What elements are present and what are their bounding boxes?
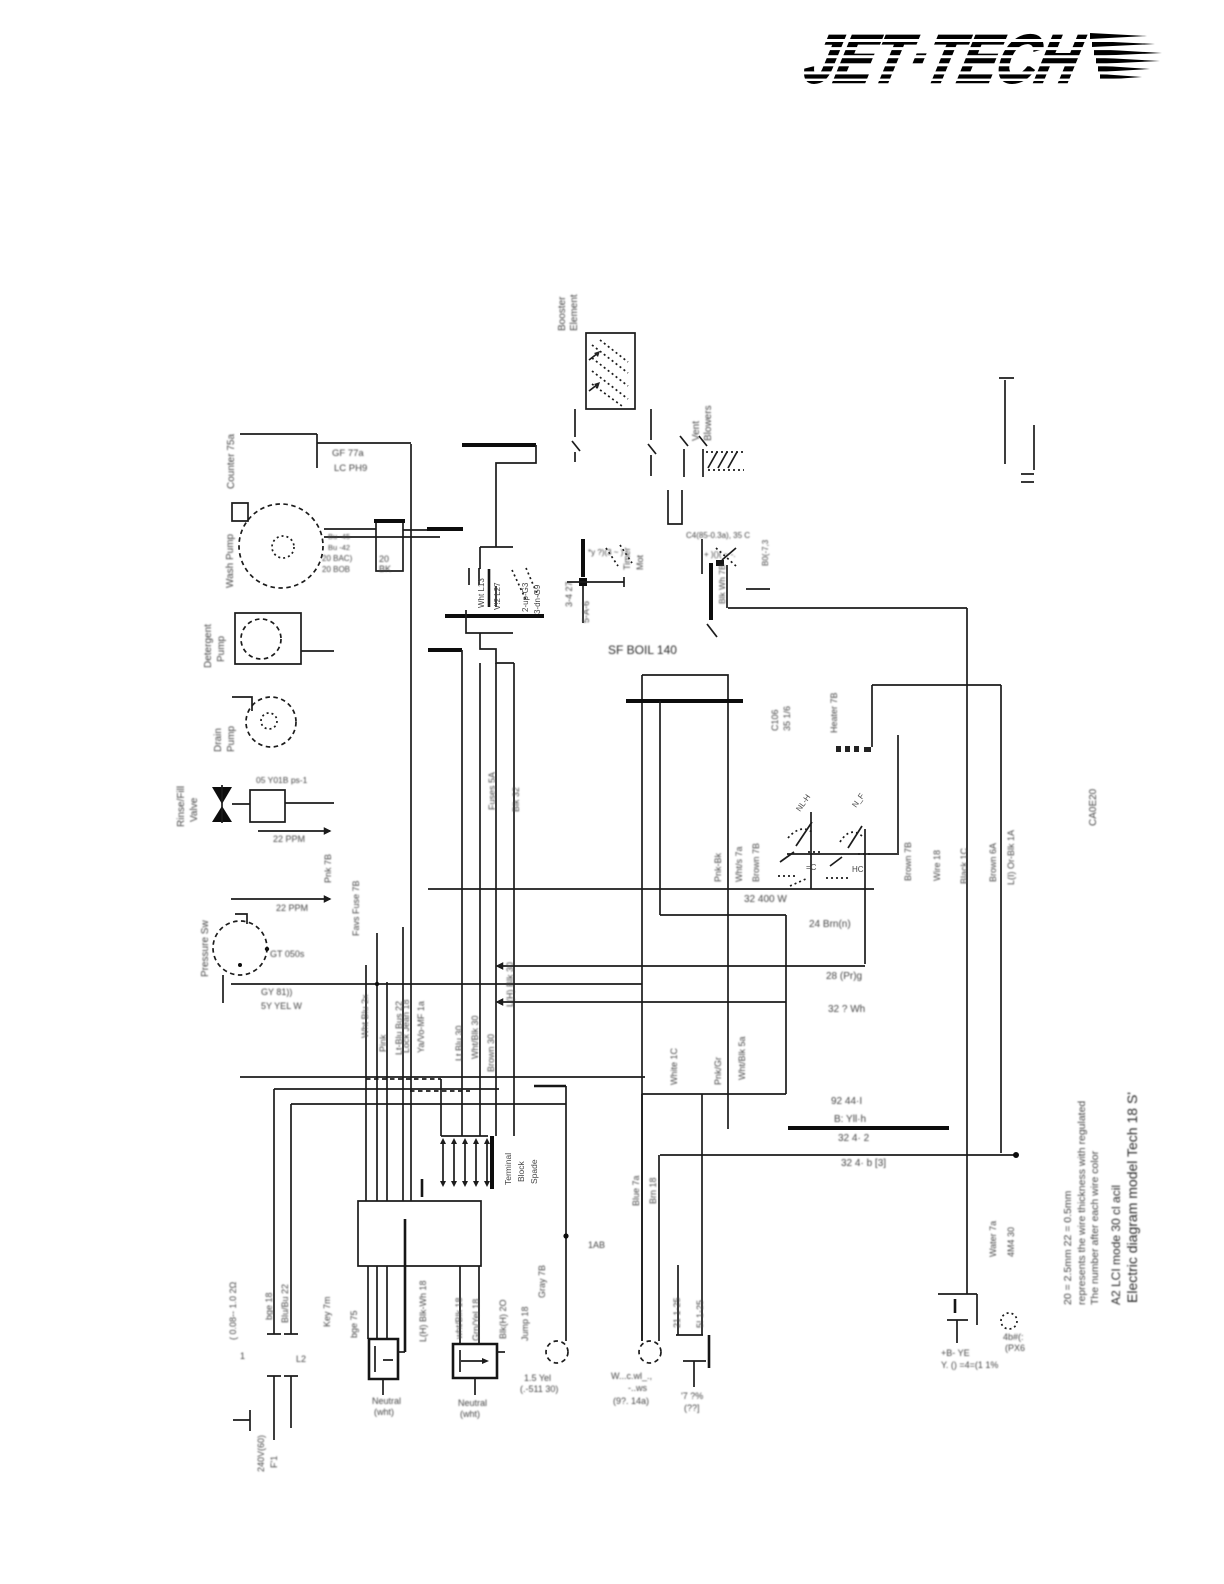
relay box 2 <box>453 1344 505 1395</box>
svg-text:Brown 6A: Brown 6A <box>988 843 998 882</box>
wire arrow 22PPM lower <box>231 898 330 900</box>
svg-text:bge 75: bge 75 <box>349 1310 359 1338</box>
svg-text:3-dn-G9: 3-dn-G9 <box>533 584 542 614</box>
svg-text:Valve: Valve <box>189 797 200 822</box>
svg-text:Spade: Spade <box>529 1159 539 1184</box>
svg-text:Favs Fuse 7B: Favs Fuse 7B <box>351 880 361 936</box>
svg-text:+B- YE: +B- YE <box>941 1348 970 1358</box>
svg-text:Pnk-Bk: Pnk-Bk <box>713 852 723 882</box>
contact block staircase <box>462 445 536 569</box>
wire mid-bottom rails <box>642 1093 786 1095</box>
fuse bracket <box>668 490 682 524</box>
wires into relay 1 <box>368 1266 387 1339</box>
svg-text:Counter 75a: Counter 75a <box>226 434 237 489</box>
svg-text:20 = 2.5mm 22 = 0.5mm: 20 = 2.5mm 22 = 0.5mm <box>1062 1190 1074 1305</box>
svg-text:3-4 27: 3-4 27 <box>564 581 574 607</box>
svg-text:Wash Pump: Wash Pump <box>225 533 236 588</box>
svg-text:bge 18: bge 18 <box>264 1292 274 1320</box>
svg-text:Booster: Booster <box>557 296 568 331</box>
relay box 1 <box>369 1339 405 1395</box>
wire hook below contacts <box>466 610 514 663</box>
svg-text:Mot: Mot <box>635 554 645 570</box>
svg-text:Pump: Pump <box>226 725 237 752</box>
svg-text:Block: Block <box>516 1160 526 1182</box>
supply terminals <box>233 1334 298 1440</box>
svg-text:Vent: Vent <box>691 421 702 441</box>
svg-text:Pink: Pink <box>378 1034 388 1052</box>
svg-text:Brown 7B: Brown 7B <box>751 843 761 882</box>
wire long center vertical <box>410 444 412 1201</box>
svg-text:Ya/Vo-MF 1a: Ya/Vo-MF 1a <box>416 1001 426 1053</box>
svg-text:240V(60): 240V(60) <box>256 1435 266 1472</box>
wash motor lower <box>546 1341 568 1363</box>
svg-text:20: 20 <box>379 554 389 564</box>
svg-text:N_F: N_F <box>850 792 866 810</box>
thick bus lower contact <box>445 614 544 618</box>
valve box <box>250 790 285 822</box>
svg-text:-..ws: -..ws <box>628 1383 647 1393</box>
wire top right stubs <box>999 378 1034 482</box>
wire cap branch <box>676 1094 709 1387</box>
svg-text:BK: BK <box>379 564 391 574</box>
svg-text:Rinse/Fill: Rinse/Fill <box>176 786 187 827</box>
wire pump to capacitor <box>324 529 440 537</box>
wire long mid rail <box>428 888 874 890</box>
wire right top rail <box>727 565 967 608</box>
svg-text:22 PPM: 22 PPM <box>273 834 305 844</box>
rinse motor lower <box>639 1094 661 1363</box>
svg-text:20 BOB: 20 BOB <box>322 565 350 574</box>
wire drop to motor <box>565 1086 567 1341</box>
wire vertical feeders <box>461 650 463 1136</box>
svg-text:CA0E20: CA0E20 <box>1088 788 1099 826</box>
timer motor bar <box>567 539 632 623</box>
wire L1 rail <box>274 1089 499 1334</box>
svg-text:GT 050s: GT 050s <box>270 949 305 959</box>
wire capacitor to contact block <box>403 529 427 531</box>
svg-text:Grn/Yel 18: Grn/Yel 18 <box>471 1299 481 1341</box>
relay contact stack <box>469 568 542 614</box>
svg-text:represents the wire thickness: represents the wire thickness with regul… <box>1076 1101 1088 1305</box>
svg-text:1AB: 1AB <box>588 1240 605 1250</box>
wire valve out <box>285 802 334 804</box>
svg-text:5! 1-25: 5! 1-25 <box>695 1300 705 1328</box>
svg-text:Neutral: Neutral <box>458 1398 487 1408</box>
svg-text:92 44·I: 92 44·I <box>831 1096 862 1107</box>
thick bar to relay <box>404 1219 407 1352</box>
svg-text:L(H) Blk-Wh 18: L(H) Blk-Wh 18 <box>418 1280 428 1342</box>
wire left thick stub <box>428 648 462 652</box>
svg-text:Heater 7B: Heater 7B <box>829 692 839 733</box>
svg-text:35 1/6: 35 1/6 <box>782 706 792 731</box>
wire upper right link <box>872 685 1001 747</box>
svg-text:F'1: F'1 <box>269 1456 279 1468</box>
svg-text:5Y YEL W: 5Y YEL W <box>261 1001 302 1011</box>
svg-text:Electric diagram model Tech: Electric diagram model Tech 18 S' <box>1124 1092 1140 1303</box>
rinse valve <box>212 785 250 823</box>
contactor coil box <box>358 1201 481 1266</box>
svg-text:SF BOIL 140: SF BOIL 140 <box>608 643 677 657</box>
svg-text:Blk 32: Blk 32 <box>511 787 521 812</box>
svg-text:Y. () =4=(1 1%: Y. () =4=(1 1% <box>941 1360 998 1370</box>
wire top-left feed <box>240 434 411 468</box>
svg-text:NL-H: NL-H <box>794 793 812 814</box>
svg-text:Blk Wh 7B: Blk Wh 7B <box>717 564 727 604</box>
logo JET-TECH <box>780 22 1210 97</box>
svg-text:Wht Blu 2x: Wht Blu 2x <box>360 994 370 1038</box>
svg-text:JET·TECH: JET·TECH <box>798 22 1090 97</box>
svg-text:Pressure Sw: Pressure Sw <box>200 920 211 977</box>
svg-text:=C: =C <box>806 863 817 872</box>
svg-text:Timer: Timer <box>622 547 632 570</box>
wire mid cluster verticals <box>366 927 403 1201</box>
detergent pump <box>235 613 334 664</box>
svg-text:1: 1 <box>240 1351 245 1361</box>
svg-text:Drain: Drain <box>213 728 224 752</box>
svg-text:Wht L13: Wht L13 <box>477 578 486 608</box>
svg-text:+ )()( ~ -.: + )()( ~ -. <box>704 550 736 559</box>
svg-text:B0(-7,3: B0(-7,3 <box>761 539 770 566</box>
svg-text:Blu/Bu 22: Blu/Bu 22 <box>280 1284 290 1323</box>
svg-text:20 BAC): 20 BAC) <box>322 554 353 563</box>
drain pump motor <box>232 697 296 747</box>
svg-text:( 0.08-- 1.0 2Ω: ( 0.08-- 1.0 2Ω <box>228 1281 238 1340</box>
wire low rail 1 <box>240 1076 645 1078</box>
svg-text:Wire 18: Wire 18 <box>932 850 942 881</box>
wire timer drop <box>727 889 729 1129</box>
svg-text:Lt Blu 30: Lt Blu 30 <box>454 1025 464 1061</box>
connector strip <box>366 1079 539 1197</box>
svg-text:(??]: (??] <box>684 1403 700 1413</box>
svg-text:Jump 18: Jump 18 <box>520 1306 530 1341</box>
svg-text:Key 7m: Key 7m <box>322 1296 332 1327</box>
svg-text:L(H) Blk 30: L(H) Blk 30 <box>505 962 515 1007</box>
svg-text:Pump: Pump <box>216 635 227 662</box>
wire timer internal <box>660 701 786 1094</box>
svg-text:Brown 30: Brown 30 <box>486 1034 496 1072</box>
vent blower element <box>680 436 744 477</box>
pressure switch <box>213 914 269 1003</box>
svg-text:(.-511 30): (.-511 30) <box>520 1384 558 1394</box>
svg-text:1.5 Yel: 1.5 Yel <box>524 1373 551 1383</box>
svg-text:wht/Blk 18: wht/Blk 18 <box>454 1297 464 1340</box>
wire long horizontal bus <box>231 983 642 985</box>
svg-text:HC: HC <box>852 865 864 874</box>
svg-text:22 PPM: 22 PPM <box>276 903 308 913</box>
wire stub <box>810 812 812 889</box>
svg-text:L2: L2 <box>296 1354 306 1364</box>
cam contact cluster <box>778 746 871 886</box>
svg-text:32 400 W: 32 400 W <box>744 894 787 905</box>
svg-text:32 4· b [3]: 32 4· b [3] <box>841 1158 886 1169</box>
wire lower bus arrows <box>497 965 865 967</box>
svg-text:Bu -42: Bu -42 <box>328 543 350 552</box>
wire heater branch <box>864 829 866 964</box>
svg-text:White 1C: White 1C <box>669 1047 679 1085</box>
svg-text:Element: Element <box>569 294 580 331</box>
thick bus in timer <box>626 699 743 703</box>
booster contactor lower right <box>938 1294 1017 1343</box>
svg-text:21 1-25: 21 1-25 <box>672 1297 682 1328</box>
svg-text:W...c.wl_.,: W...c.wl_., <box>611 1371 652 1381</box>
svg-text:28 (Pr)g: 28 (Pr)g <box>826 971 862 982</box>
svg-text:LC PH9: LC PH9 <box>334 463 367 474</box>
svg-text:Neutral: Neutral <box>372 1396 401 1406</box>
wire contact rail <box>787 735 898 855</box>
svg-text:Blue 7a: Blue 7a <box>631 1175 641 1206</box>
svg-text:'7 ?%: '7 ?% <box>681 1391 703 1401</box>
svg-text:Brown 7B: Brown 7B <box>903 842 913 881</box>
svg-text:Blowers: Blowers <box>703 405 714 441</box>
svg-text:Black 1C: Black 1C <box>959 847 969 884</box>
svg-text:Pnk/Gr: Pnk/Gr <box>713 1057 723 1085</box>
capacitor box 20BK <box>376 520 403 571</box>
svg-text:Gray 7B: Gray 7B <box>537 1265 547 1298</box>
wire arrow 22PPM upper <box>258 830 330 832</box>
timer feed bar <box>707 548 770 637</box>
wire right branch drop <box>1000 685 1002 1153</box>
svg-text:(PX6: (PX6 <box>1005 1343 1025 1353</box>
wire L2 rail <box>291 1104 566 1334</box>
svg-text:Wht/Blk 5a: Wht/Blk 5a <box>737 1036 747 1080</box>
booster element box <box>586 333 635 409</box>
svg-text:Wht/Blk 30: Wht/Blk 30 <box>470 1015 480 1059</box>
svg-text:5-A-6: 5-A-6 <box>581 601 591 623</box>
svg-text:GF 77a: GF 77a <box>332 448 364 459</box>
wire booster switch right <box>648 409 656 476</box>
svg-text:V!2 L27: V!2 L27 <box>493 582 502 610</box>
wire right tall drop <box>966 608 968 1294</box>
svg-text:L(I) Or-Blk 1A: L(I) Or-Blk 1A <box>1006 830 1016 885</box>
svg-text:32 ? Wh: 32 ? Wh <box>828 1004 865 1015</box>
wire thick jog <box>534 1085 566 1088</box>
svg-text:*y ?)(3 ~ ): *y ?)(3 ~ ) <box>588 548 624 557</box>
svg-text:24 Brn(n): 24 Brn(n) <box>809 919 851 930</box>
svg-text:A2 LCI mode 30 cl acil: A2 LCI mode 30 cl acil <box>1109 1185 1123 1305</box>
svg-text:2-up-G3: 2-up-G3 <box>521 582 530 612</box>
svg-text:Bu -45: Bu -45 <box>328 532 350 541</box>
wires into relay 2 <box>460 1266 479 1344</box>
svg-text:(wht): (wht) <box>374 1407 394 1417</box>
wash pump motor <box>232 503 323 588</box>
svg-text:Pnk 7B: Pnk 7B <box>323 854 333 883</box>
timer box <box>642 675 728 1341</box>
svg-text:4M4 30: 4M4 30 <box>1006 1227 1016 1257</box>
svg-text:Fuses 5A: Fuses 5A <box>487 772 497 810</box>
svg-text:05 Y01B ps-1: 05 Y01B ps-1 <box>256 775 308 785</box>
svg-text:GY 81)): GY 81)) <box>261 987 292 997</box>
wire booster switch left <box>572 409 580 462</box>
svg-text:32 4· 2: 32 4· 2 <box>838 1133 870 1144</box>
svg-text:4b#(:: 4b#(: <box>1003 1332 1024 1342</box>
svg-text:C106: C106 <box>770 709 780 731</box>
svg-text:Detergent: Detergent <box>203 624 214 668</box>
svg-text:Brn 18: Brn 18 <box>648 1177 658 1204</box>
svg-text:The number after each wire col: The number after each wire color <box>1089 1150 1101 1305</box>
schematic wires <box>212 333 1034 1440</box>
svg-text:Terminal: Terminal <box>503 1153 513 1185</box>
svg-text:Wht/s 7a: Wht/s 7a <box>734 846 744 882</box>
svg-text:(wht): (wht) <box>460 1409 480 1419</box>
svg-text:(9?. 14a): (9?. 14a) <box>613 1396 649 1406</box>
svg-text:Blk(H) 2O: Blk(H) 2O <box>498 1299 508 1339</box>
svg-text:Water 7a: Water 7a <box>988 1221 998 1257</box>
svg-text:C4(85-0.3a), 35 C: C4(85-0.3a), 35 C <box>686 531 750 540</box>
svg-text:B: Yll·h: B: Yll·h <box>834 1114 866 1125</box>
svg-text:Lock Jean 18: Lock Jean 18 <box>401 999 411 1053</box>
